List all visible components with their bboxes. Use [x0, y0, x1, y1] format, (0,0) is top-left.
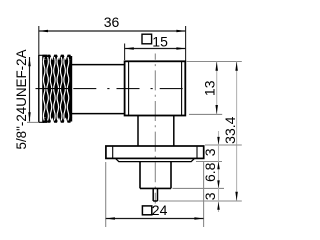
thread bottom extension tick	[27, 121, 39, 123]
svg-text:36: 36	[104, 14, 120, 30]
dim square15 line	[125, 48, 186, 50]
gasket bottom extension right	[196, 161, 222, 163]
svg-text:6.8: 6.8	[202, 162, 218, 182]
flange top extension right	[205, 144, 242, 146]
dim square15 extension left	[124, 44, 126, 61]
stem below body	[138, 116, 174, 146]
svg-text:5/8"-24UNEF-2A: 5/8"-24UNEF-2A	[14, 49, 29, 149]
svg-text:33.4: 33.4	[222, 116, 238, 143]
thread crest peaks bottom	[46, 118, 52, 123]
centerline over thread	[43, 88, 72, 90]
svg-text:24: 24	[152, 202, 168, 218]
flange plate	[106, 146, 204, 158]
centerline vertical (lower stem axis)	[154, 54, 156, 204]
dim 33.4 line	[236, 62, 238, 202]
smooth cylinder shank	[72, 65, 125, 114]
stacked dim line 3 / 6.8 / 3	[218, 131, 220, 212]
gasket disc below flange	[116, 158, 195, 161]
dim 13 line	[216, 62, 218, 115]
svg-text:3: 3	[202, 192, 218, 200]
thread size dim line	[29, 57, 31, 122]
lower block bottom extension right	[173, 187, 225, 189]
dim square24 extension left	[105, 162, 107, 227]
pin bottom extension right	[159, 200, 242, 202]
lower block	[140, 162, 171, 189]
svg-text:15: 15	[152, 34, 168, 50]
thread helix waves	[43, 57, 68, 121]
svg-text:13: 13	[202, 80, 218, 96]
body bottom extension line right	[189, 113, 222, 115]
dim 36 line	[39, 30, 186, 32]
svg-text:3: 3	[202, 148, 218, 156]
thread body dark mass	[43, 60, 72, 118]
body top extension line right	[187, 61, 242, 63]
center contact pin	[153, 188, 157, 201]
thread crest peaks top	[46, 55, 52, 60]
square body block	[125, 61, 186, 115]
thread runout edge	[71, 56, 73, 122]
dim square24 text	[142, 206, 151, 215]
dim square15 text	[142, 34, 152, 44]
dim 36 extension right	[185, 26, 187, 61]
dim square24 line	[106, 218, 204, 220]
thread end face	[39, 26, 44, 123]
centerline horizontal (thread axis)	[36, 88, 189, 90]
dim square24 extension right	[203, 162, 205, 227]
